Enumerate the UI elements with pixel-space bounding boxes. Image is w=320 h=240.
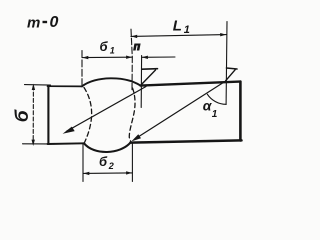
label б1 [100,39,115,56]
dimension б2: left extension line [82,144,84,182]
dimension n: arrow [142,56,148,59]
label б2 [99,154,114,171]
dimension б: top extension line [25,84,51,87]
weld root sag (bottom) [84,143,131,152]
svg-text:б: б [100,39,109,54]
svg-text:m: m [27,15,40,32]
dimension б1: left extension line [81,51,83,87]
plate left edge [47,86,49,144]
dimension б: bottom extension line [23,143,48,145]
plate bottom edge right segment [131,140,242,142]
svg-text:б: б [99,154,108,169]
svg-text:1: 1 [184,24,190,36]
leader arrow 1 head [63,127,75,134]
dimension б1: arrow right [126,56,132,59]
leader arrow 2 head [131,134,141,141]
extension line A (б1 right / n left / L1 left) [131,29,132,90]
dimension б: vertical dimension line left [32,86,34,143]
weld mark 7 left: diagonal stroke [141,70,155,85]
dimension б2: dimension line [83,172,132,175]
weld mark 7 right: diagonal stroke [226,70,236,81]
leader arrow 1 (left diagonal) [67,87,147,132]
svg-text:п: п [134,41,141,53]
extension line B (n right) [140,56,142,108]
dimension б: arrow down [32,140,35,146]
weld mark 7 left: horizontal stroke [142,68,158,71]
weld mark 7 right: horizontal stroke [227,68,238,69]
dimension L1: arrow left [131,35,137,38]
plate top edge right segment [141,82,240,86]
plate bottom edge left segment [48,142,85,145]
label m=0 [27,14,59,31]
svg-text:1: 1 [212,109,218,120]
weld fusion boundary dashed curve right [129,88,135,142]
label L1 [173,18,190,36]
svg-text:2: 2 [108,161,114,171]
svg-text:0: 0 [50,14,59,31]
leader arrow 2 (right diagonal) [135,81,226,139]
weld cap bump (top reinforcement) [82,78,141,86]
svg-text:1: 1 [110,46,115,56]
dimension n: line with arrow [142,56,175,58]
angle alpha1 arc [207,94,226,104]
dimension L1: arrow right [220,33,226,36]
dimension б2: right extension line [131,143,133,182]
dimension L1: right extension line / angle side [225,22,228,105]
weld fusion boundary dashed curve left [84,88,92,143]
dimension L1: dimension line [131,35,227,37]
plate right edge [239,82,242,141]
dimension б: arrow up [32,84,35,90]
plate top edge left segment [48,85,83,87]
dimension б1: dimension line [82,56,132,58]
dimension б1: arrow left [82,56,88,59]
svg-text:L: L [173,18,182,35]
label alpha1 [203,98,218,121]
dimension б2: arrow right [126,171,132,174]
dimension б2: arrow left [83,172,89,175]
